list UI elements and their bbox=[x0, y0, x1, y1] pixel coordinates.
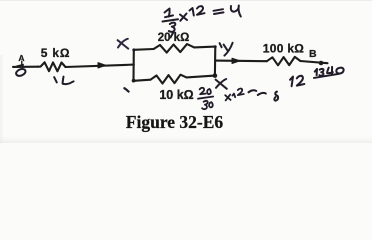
label node A bbox=[18, 53, 24, 63]
svg-text:A: A bbox=[18, 53, 24, 63]
current direction arrow after parallel block bbox=[232, 58, 240, 63]
annotation 12 (top formula) bbox=[190, 6, 205, 15]
annotation O mark below node A bbox=[15, 68, 26, 77]
resistor 20k bbox=[154, 44, 195, 53]
junction dot at bottom-right of block bbox=[213, 73, 218, 78]
wire top branch left bbox=[134, 48, 154, 51]
corner blobs of parallel block bbox=[132, 45, 217, 82]
annotation 1340 underlined near node B bbox=[313, 66, 344, 78]
annotation fraction numerator 1 (top formula) bbox=[165, 9, 174, 18]
annotation 12 below resistor 100k bbox=[290, 76, 304, 86]
label node B bbox=[309, 48, 317, 60]
annotation result 8 (bottom formula) bbox=[274, 92, 278, 101]
annotation 12 below resistor 5k bbox=[54, 77, 73, 85]
caption Figure 32-E6 bbox=[126, 112, 224, 132]
annotation approx equals (bottom formula) bbox=[249, 90, 266, 95]
label 20 kOhm bbox=[158, 32, 190, 44]
arrow tick at node A bbox=[17, 61, 24, 67]
annotation result 4 (top formula) bbox=[231, 6, 241, 17]
resistor 5k bbox=[38, 62, 66, 71]
wire bottom branch left bbox=[134, 80, 151, 81]
svg-text:100 kΩ: 100 kΩ bbox=[263, 42, 305, 56]
wire parallel block to resistor 100k bbox=[215, 60, 266, 63]
annotation X mark at node left of block bbox=[118, 39, 129, 49]
label 10 kOhm bbox=[159, 88, 193, 102]
label 100 kOhm bbox=[263, 42, 305, 56]
current direction arrow on input wire bbox=[98, 63, 106, 68]
wire A to resistor 5k bbox=[13, 66, 38, 68]
annotation fraction bar (top formula) bbox=[163, 19, 179, 21]
annotation y mark at top right of block bbox=[220, 43, 233, 56]
svg-text:5 kΩ: 5 kΩ bbox=[41, 46, 71, 60]
wire top branch right bbox=[194, 46, 215, 49]
node B terminal dot bbox=[319, 61, 324, 66]
wire 100k to node B bbox=[300, 61, 327, 63]
annotation times 12 (bottom formula) bbox=[225, 89, 244, 101]
wire bottom branch right bbox=[187, 76, 215, 78]
resistor 100k bbox=[267, 57, 301, 65]
annotation equals sign (top formula) bbox=[214, 9, 224, 14]
wire left vertical of parallel block bbox=[132, 50, 134, 81]
annotation fraction denominator 3 (top formula) bbox=[169, 23, 176, 38]
annotation fraction 20/30 bbox=[198, 88, 213, 109]
annotation times sign (top formula) bbox=[180, 14, 187, 21]
annotation X mark at junction below block bbox=[216, 79, 227, 89]
resistor 10k bbox=[151, 75, 187, 84]
annotation tick mark left of 10k branch bbox=[124, 88, 128, 91]
wire 5k to parallel block bbox=[66, 65, 134, 67]
label 5 kOhm bbox=[41, 46, 71, 60]
svg-text:B: B bbox=[309, 48, 317, 60]
wire right vertical of parallel block bbox=[214, 47, 217, 76]
svg-text:10 kΩ: 10 kΩ bbox=[159, 88, 193, 102]
svg-text:Figure 32-E6: Figure 32-E6 bbox=[126, 112, 224, 132]
